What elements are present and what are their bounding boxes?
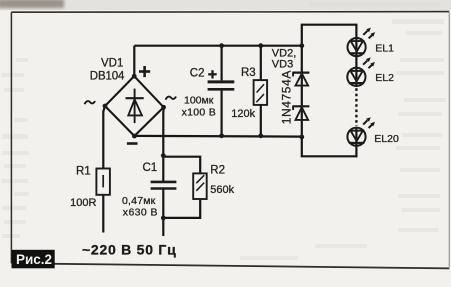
wire right bridge node down to C1 node <box>162 107 165 155</box>
svg-text:0,47мк: 0,47мк <box>122 195 156 207</box>
LED EL2 <box>347 57 375 86</box>
node C2 bottom <box>219 133 224 138</box>
svg-text:R3: R3 <box>241 67 256 79</box>
wire below R1 to AC terminal <box>102 195 104 233</box>
wire top bus from bridge + to zener top <box>134 45 301 47</box>
svg-text:C1: C1 <box>143 162 158 174</box>
capacitor C1 <box>151 182 177 189</box>
svg-text:EL20: EL20 <box>374 133 399 145</box>
resistor R1 <box>96 169 110 195</box>
LED EL20 <box>347 117 375 146</box>
wire R2 top branch <box>163 157 200 174</box>
svg-text:DB104: DB104 <box>90 71 125 83</box>
resistor R3 <box>254 80 268 105</box>
wire zener chain vertical <box>301 46 303 138</box>
svg-text:VD1: VD1 <box>101 58 123 70</box>
figure label Рис.2 <box>12 250 55 268</box>
node bridge left <box>103 104 108 109</box>
node C1 top junction <box>161 153 166 158</box>
polarity minus at bridge bottom <box>127 142 138 145</box>
wire bottom bus <box>134 135 301 138</box>
svg-text:~220 В 50 Гц: ~220 В 50 Гц <box>82 241 176 257</box>
wire LED inner vertical EL1-EL2 <box>355 38 357 86</box>
svg-text:Рис.2: Рис.2 <box>16 252 52 267</box>
node zener bottom <box>299 135 304 140</box>
junction nodes <box>103 43 305 220</box>
svg-text:x100 В: x100 В <box>182 107 217 119</box>
svg-text:VD2,: VD2, <box>272 47 296 59</box>
AC tilde left of bridge <box>85 101 96 104</box>
wire R3 bottom branch <box>260 105 262 136</box>
zener diode VD2 <box>292 73 309 86</box>
polarity plus at C2 <box>208 70 217 78</box>
svg-text:100R: 100R <box>70 197 96 209</box>
wire through EL20 <box>355 128 357 146</box>
svg-text:EL1: EL1 <box>375 43 394 55</box>
svg-text:1N4754A: 1N4754A <box>279 70 293 124</box>
wire bridge plus stub <box>133 46 135 76</box>
node C2 top <box>219 43 224 48</box>
svg-text:120k: 120k <box>231 108 255 120</box>
wire C1 bottom to AC terminal <box>162 189 164 236</box>
capacitor C2 (polarized) <box>208 82 235 89</box>
node R3 top <box>258 43 263 48</box>
wire R3 top branch <box>260 46 262 80</box>
bridge inner diode <box>126 89 144 124</box>
node zener top <box>299 43 304 48</box>
wire LED string top jog <box>302 25 357 46</box>
LED EL1 <box>348 28 376 57</box>
svg-text:EL2: EL2 <box>375 72 394 84</box>
node bridge right <box>161 105 166 110</box>
resistor R2 <box>193 173 207 199</box>
svg-text:560k: 560k <box>210 184 234 196</box>
node bridge bottom <box>132 134 137 139</box>
svg-text:x630 В: x630 В <box>123 206 158 218</box>
bridge rectifier VD1 diamond <box>105 76 164 136</box>
node C1 bottom junction <box>161 216 166 221</box>
svg-text:C2: C2 <box>190 67 205 79</box>
wire dashed between EL2 and EL20 <box>355 88 357 126</box>
wire C2 bottom branch <box>221 91 223 136</box>
zener diode VD3 <box>292 106 309 120</box>
node bridge top <box>132 74 137 79</box>
svg-text:R1: R1 <box>76 165 91 177</box>
svg-text:100мк: 100мк <box>184 94 214 106</box>
wire left AC lead through R1 <box>103 106 105 169</box>
svg-text:R2: R2 <box>210 165 225 177</box>
polarity plus at bridge output <box>139 66 150 77</box>
wire R2 bottom branch <box>163 200 200 218</box>
wire C1 top stub <box>162 156 164 182</box>
svg-text:VD3: VD3 <box>272 59 293 71</box>
node R3 bottom <box>258 133 263 138</box>
wire C2 top branch <box>221 46 223 81</box>
AC tilde right of bridge <box>166 97 177 100</box>
wire LED string bottom return <box>302 137 357 156</box>
